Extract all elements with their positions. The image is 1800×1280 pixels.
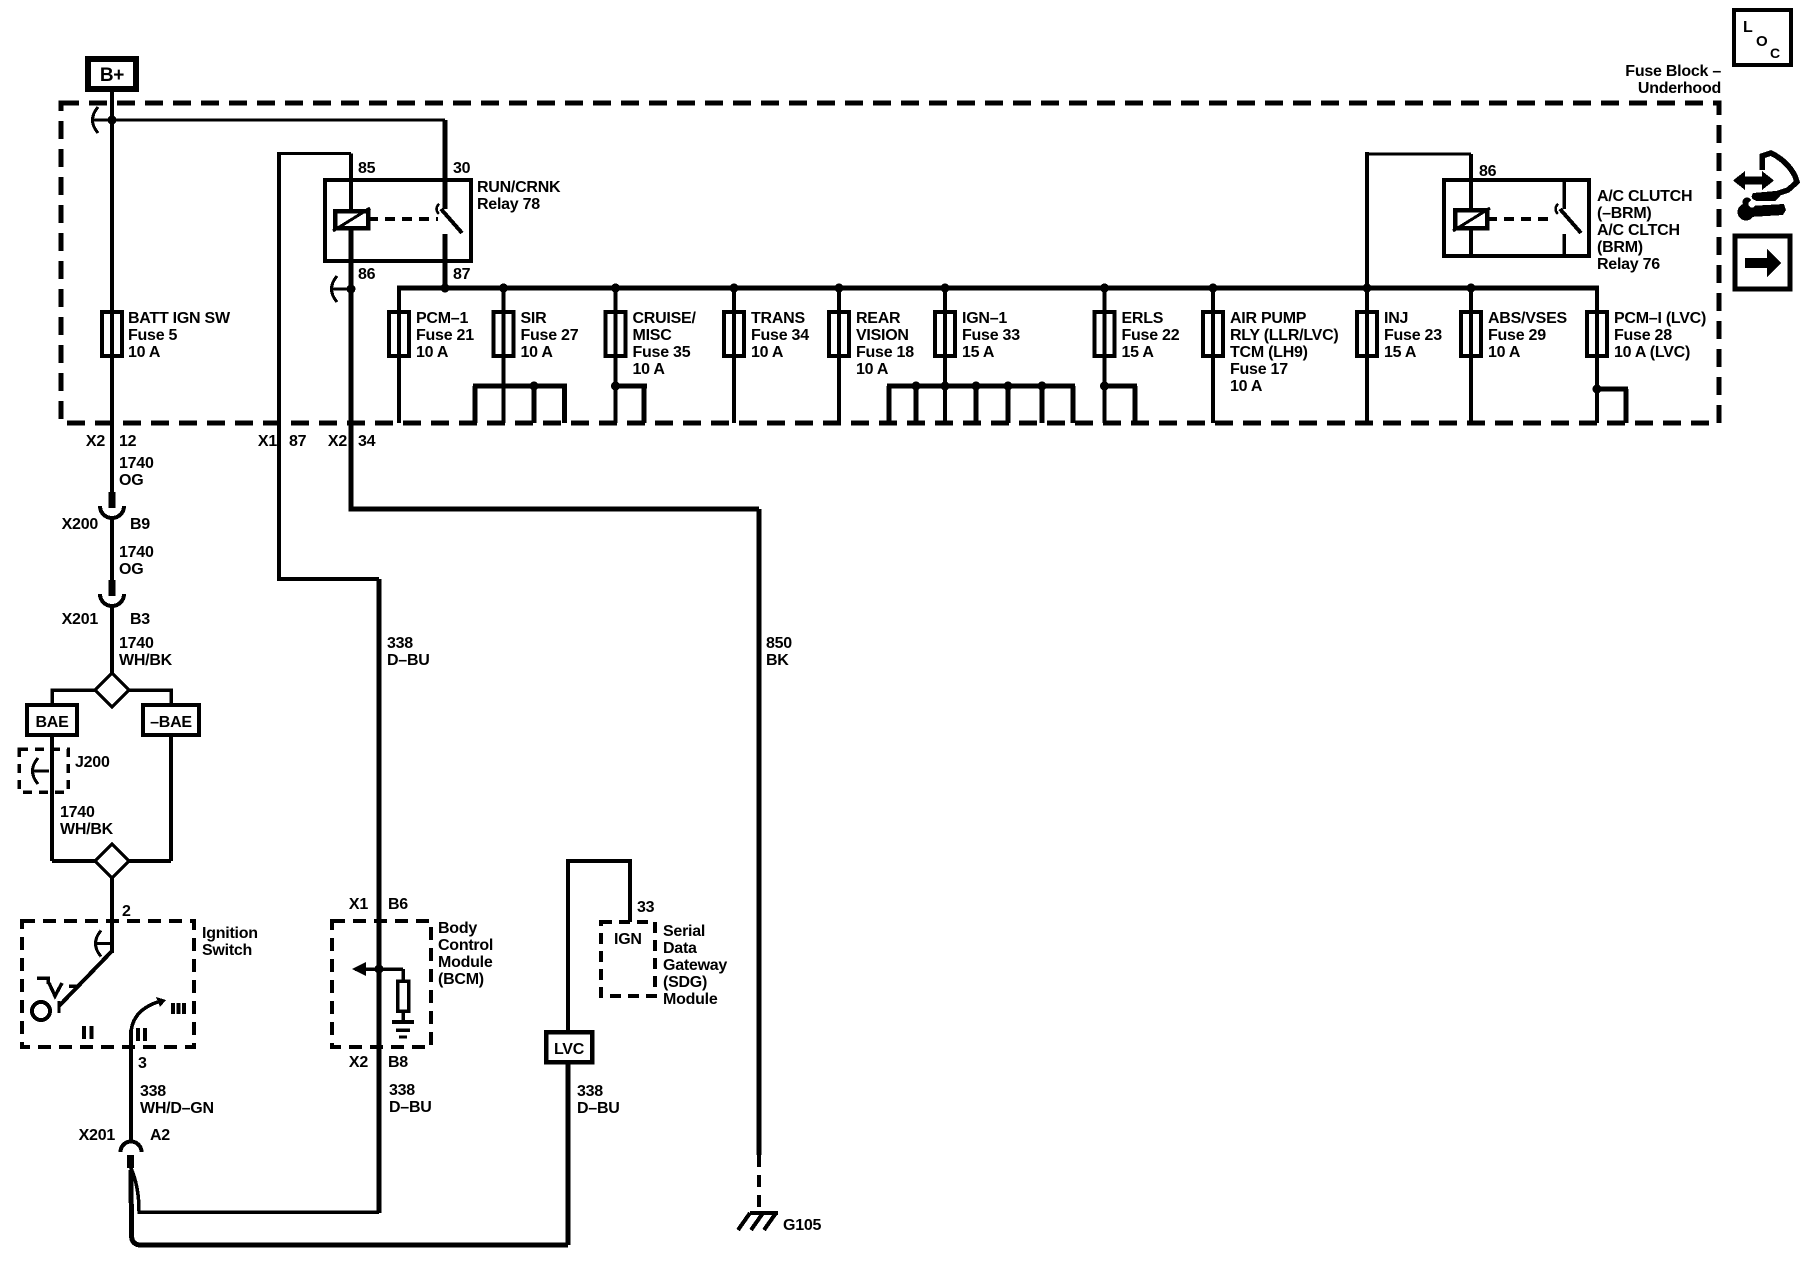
wire from A2 to LVC run: [131, 1170, 568, 1245]
wire 850 BK down: [757, 509, 762, 1155]
svg-text:87: 87: [453, 266, 471, 283]
fuse CRUISE/ MISC column: [614, 288, 618, 423]
splice diamond upper: [95, 673, 129, 707]
wire: bus up from INJ column to relay 76 pin 86: [1365, 152, 1369, 288]
svg-text:(BRM): (BRM): [1597, 239, 1643, 256]
svg-text:Ignition: Ignition: [202, 925, 258, 942]
svg-text:10 A: 10 A: [751, 344, 784, 361]
relay 76 coil: [1455, 210, 1487, 228]
svg-text:BAE: BAE: [35, 714, 69, 731]
svg-text:A/C CLTCH: A/C CLTCH: [1597, 222, 1680, 239]
svg-text:B3: B3: [130, 611, 150, 628]
svg-text:X2: X2: [328, 433, 347, 450]
fuse block underhood dashed border: [61, 103, 1719, 423]
svg-text:D–BU: D–BU: [389, 1099, 432, 1116]
fuse REAR VISION column: [837, 288, 841, 423]
svg-text:30: 30: [453, 160, 471, 177]
svg-text:Fuse 23: Fuse 23: [1384, 327, 1442, 344]
svg-text:B9: B9: [130, 516, 150, 533]
ground G105: [750, 1211, 778, 1215]
BCM internal resistor: [401, 969, 405, 981]
relay 76 A/C clutch box: [1444, 180, 1589, 256]
svg-text:Module: Module: [438, 954, 493, 971]
svg-text:RUN/CRNK: RUN/CRNK: [477, 179, 561, 196]
svg-text:338: 338: [387, 635, 413, 652]
svg-text:1740: 1740: [119, 544, 154, 561]
relay 78 RUN/CRNK box: [325, 180, 471, 261]
ignition switch dashed box: [22, 921, 194, 1047]
svg-text:Fuse 35: Fuse 35: [633, 344, 691, 361]
svg-text:Fuse 29: Fuse 29: [1488, 327, 1546, 344]
svg-text:Fuse 5: Fuse 5: [128, 327, 178, 344]
relay 78 coil feed stub: [349, 180, 353, 213]
svg-text:LVC: LVC: [554, 1041, 585, 1058]
svg-text:OG: OG: [119, 472, 143, 489]
svg-text:X2: X2: [86, 433, 105, 450]
svg-text:(–BRM): (–BRM): [1597, 205, 1652, 222]
svg-text:G105: G105: [783, 1217, 821, 1234]
svg-text:INJ: INJ: [1384, 310, 1408, 327]
relay 76 switch: [1562, 182, 1566, 209]
terminal BAE: [27, 705, 77, 735]
svg-text:10 A: 10 A: [128, 344, 161, 361]
wire 338 D-BU down to BCM: [377, 579, 382, 1213]
dashed lead to G105: [757, 1155, 761, 1209]
svg-text:A/C CLUTCH: A/C CLUTCH: [1597, 188, 1692, 205]
junction at B+ feed: [108, 116, 117, 125]
svg-text:BK: BK: [766, 652, 789, 669]
svg-text:B+: B+: [100, 65, 124, 86]
svg-text:338: 338: [389, 1082, 415, 1099]
svg-text:RLY (LLR/LVC): RLY (LLR/LVC): [1230, 327, 1338, 344]
icon: diagnostic arrows/wrench: [1733, 153, 1797, 221]
fuse IGN–1 Fuse 33 column: [943, 288, 947, 423]
svg-text:REAR: REAR: [856, 310, 901, 327]
wire: relay 78 pin 85 over to X1 87 drop: [277, 152, 281, 423]
svg-text:Fuse 22: Fuse 22: [1122, 327, 1180, 344]
svg-text:L: L: [1743, 19, 1753, 36]
wire BAE down through J200: [50, 735, 54, 861]
B+ battery feed terminal: [88, 59, 136, 89]
svg-text:C: C: [1770, 45, 1780, 61]
svg-text:SIR: SIR: [521, 310, 548, 327]
svg-text:10 A: 10 A: [856, 361, 889, 378]
wire from A2 to BCM B8 run: [130, 1166, 379, 1212]
svg-text:Gateway: Gateway: [663, 957, 727, 974]
wire 1740 OG segment 2: [110, 518, 114, 581]
fuse SIR Fuse 27 column: [502, 288, 506, 423]
svg-text:86: 86: [358, 266, 376, 283]
svg-text:(BCM): (BCM): [438, 971, 484, 988]
svg-text:–BAE: –BAE: [150, 714, 192, 731]
wire 1740 WH/BK to splice diamond: [110, 606, 114, 674]
svg-text:(SDG): (SDG): [663, 974, 707, 991]
svg-text:Fuse 18: Fuse 18: [856, 344, 914, 361]
svg-text:33: 33: [637, 899, 655, 916]
svg-text:87: 87: [289, 433, 307, 450]
svg-text:Fuse 33: Fuse 33: [962, 327, 1020, 344]
svg-text:ERLS: ERLS: [1122, 310, 1164, 327]
svg-text:850: 850: [766, 635, 792, 652]
svg-text:PCM–1: PCM–1: [416, 310, 468, 327]
comb under PCM-I fuse: [1595, 387, 1628, 392]
wire X1 87 jog to 338 D-BU: [279, 423, 379, 579]
ignition position II marks: [82, 1026, 86, 1039]
svg-text:A2: A2: [150, 1127, 170, 1144]
svg-text:VISION: VISION: [856, 327, 909, 344]
relay 76 dashed actuator link: [1487, 217, 1553, 221]
relay 78 coil: [335, 211, 368, 228]
svg-text:Serial: Serial: [663, 923, 705, 940]
BCM internal arrow to other circuits: [355, 967, 403, 971]
terminal -BAE: [143, 705, 199, 735]
wire to -BAE branch: [129, 690, 171, 737]
relay 76 coil feed stub: [1469, 180, 1473, 212]
SDG module dashed box: [601, 922, 655, 996]
svg-text:Underhood: Underhood: [1638, 80, 1721, 97]
wire to BAE branch: [52, 690, 95, 737]
svg-text:D–BU: D–BU: [387, 652, 430, 669]
svg-text:CRUISE/: CRUISE/: [633, 310, 697, 327]
svg-text:X2: X2: [349, 1054, 368, 1071]
svg-text:WH/BK: WH/BK: [119, 652, 173, 669]
svg-text:15 A: 15 A: [1122, 344, 1155, 361]
svg-text:15 A: 15 A: [1384, 344, 1417, 361]
relay 78 switch: [443, 182, 448, 209]
svg-text:338: 338: [140, 1083, 166, 1100]
comb under CRUISE/MISC fuse: [612, 384, 647, 389]
svg-text:Switch: Switch: [202, 942, 252, 959]
svg-text:86: 86: [1479, 163, 1497, 180]
splice J200: [19, 749, 68, 792]
svg-text:1740: 1740: [60, 804, 95, 821]
svg-text:85: 85: [358, 160, 376, 177]
svg-text:PCM–I (LVC): PCM–I (LVC): [1614, 310, 1706, 327]
fuse PCM–1 Fuse 21 column: [397, 288, 401, 423]
svg-text:Fuse 34: Fuse 34: [751, 327, 809, 344]
ignition position mark BV: [37, 978, 48, 984]
svg-text:12: 12: [119, 433, 137, 450]
svg-text:X1: X1: [258, 433, 277, 450]
svg-text:IGN–1: IGN–1: [962, 310, 1007, 327]
splice diamond lower: [95, 844, 129, 878]
svg-text:15 A: 15 A: [962, 344, 995, 361]
ignition switch movable contact arm: [59, 951, 112, 1006]
svg-text:10 A: 10 A: [1230, 378, 1263, 395]
label Fuse Block - Underhood: [1625, 63, 1721, 97]
svg-text:10 A: 10 A: [1488, 344, 1521, 361]
svg-text:2: 2: [122, 903, 131, 920]
wire 1740 OG below fuse block: [110, 423, 114, 495]
svg-text:O: O: [1756, 33, 1768, 50]
svg-text:10 A: 10 A: [521, 344, 554, 361]
svg-text:IGN: IGN: [614, 931, 642, 948]
inline connector X201 B3: [109, 580, 116, 596]
svg-text:X201: X201: [79, 1127, 116, 1144]
svg-text:Body: Body: [438, 920, 477, 937]
svg-text:Fuse 17: Fuse 17: [1230, 361, 1288, 378]
fuse 5 BATT IGN SW: [102, 312, 122, 356]
terminal LVC: [546, 1032, 592, 1062]
comb between REAR VISION and IGN-1: [887, 384, 1075, 389]
wire: B+ down through fuse 5 to bottom of fuse block: [110, 89, 114, 423]
svg-text:Fuse 21: Fuse 21: [416, 327, 474, 344]
wire: relay 78 pin 87 to fuse bus: [443, 261, 448, 288]
svg-text:Relay 76: Relay 76: [1597, 256, 1660, 273]
svg-text:D–BU: D–BU: [577, 1100, 620, 1117]
svg-text:Module: Module: [663, 991, 718, 1008]
wire 338 D-BU from SDG over and down through LVC: [568, 861, 630, 1032]
svg-text:1740: 1740: [119, 455, 154, 472]
svg-text:3: 3: [138, 1055, 147, 1072]
fuse ERLS Fuse 22 column: [1103, 288, 1107, 423]
svg-text:Relay 78: Relay 78: [477, 196, 540, 213]
inline connector X201 A2: [121, 1142, 142, 1153]
fuse INJ Fuse 23 column: [1365, 288, 1369, 423]
ignition switch output pin 3: [129, 1030, 133, 1143]
svg-text:10 A: 10 A: [416, 344, 449, 361]
svg-text:BATT IGN SW: BATT IGN SW: [128, 310, 231, 327]
svg-text:TCM (LH9): TCM (LH9): [1230, 344, 1308, 361]
svg-text:TRANS: TRANS: [751, 310, 805, 327]
svg-text:Control: Control: [438, 937, 493, 954]
fuse TRANS Fuse 34 column: [732, 288, 736, 423]
relay 78 dashed actuator link: [368, 217, 438, 221]
svg-text:B6: B6: [388, 896, 408, 913]
svg-text:10 A: 10 A: [633, 361, 666, 378]
wire: feed across to relay 78 pin 30: [112, 119, 445, 122]
comb under SIR fuse: [473, 384, 567, 389]
wire -BAE down: [169, 735, 173, 861]
svg-text:X1: X1: [349, 896, 368, 913]
svg-text:1740: 1740: [119, 635, 154, 652]
ignition switch input wire and curl: [110, 921, 114, 953]
svg-text:X200: X200: [62, 516, 99, 533]
svg-text:B8: B8: [388, 1054, 408, 1071]
svg-text:Fuse 28: Fuse 28: [1614, 327, 1672, 344]
svg-text:ABS/VSES: ABS/VSES: [1488, 310, 1567, 327]
LOC reference box: [1734, 10, 1791, 65]
icon: forward arrow box: [1735, 236, 1790, 289]
ignition switch common terminal circle: [32, 1002, 50, 1020]
svg-text:AIR PUMP: AIR PUMP: [1230, 310, 1307, 327]
fuse PCM–I (LVC) Fuse 28 column: [1595, 288, 1599, 423]
svg-text:Fuse 27: Fuse 27: [521, 327, 579, 344]
inline connector X200 B9: [109, 492, 116, 508]
wire to ignition switch pin 2: [110, 878, 114, 923]
ignition position III marks: [171, 1003, 175, 1014]
fuse feed bus: [397, 286, 1599, 291]
svg-text:34: 34: [358, 433, 376, 450]
svg-text:WH/BK: WH/BK: [60, 821, 114, 838]
wire X2 34 over to 850 BK: [351, 423, 759, 509]
svg-text:10 A (LVC): 10 A (LVC): [1614, 344, 1690, 361]
svg-text:J200: J200: [75, 754, 110, 771]
svg-text:WH/D–GN: WH/D–GN: [140, 1100, 214, 1117]
svg-text:X201: X201: [62, 611, 99, 628]
wire: relay 78 pin 86 coil return down to X2 34: [349, 228, 354, 423]
svg-text:OG: OG: [119, 561, 143, 578]
BCM internal ground: [392, 1020, 414, 1024]
svg-text:Fuse Block –: Fuse Block –: [1625, 63, 1721, 80]
ignition wiper arc to III: [131, 1001, 161, 1032]
svg-text:338: 338: [577, 1083, 603, 1100]
svg-text:MISC: MISC: [633, 327, 673, 344]
BCM dashed box: [332, 921, 431, 1047]
fuse ABS/VSES Fuse 29 column: [1469, 288, 1473, 423]
comb under ERLS fuse: [1102, 384, 1137, 389]
svg-text:Data: Data: [663, 940, 697, 957]
fuse AIR PUMP RLY (LLR/LVC) column: [1211, 288, 1215, 423]
